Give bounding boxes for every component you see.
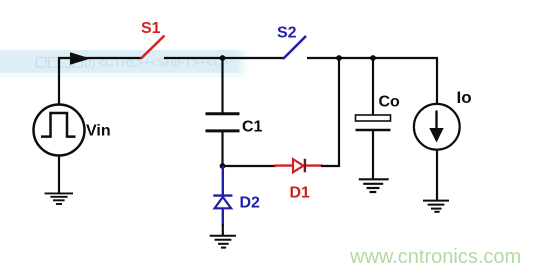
svg-text:D1: D1 <box>290 184 311 201</box>
svg-text:D2: D2 <box>240 194 261 211</box>
capacitor C1 <box>206 114 240 131</box>
current arrow on top rail <box>70 52 91 64</box>
wire: Co top lead <box>372 58 374 115</box>
node: D1 riser junction <box>336 55 342 61</box>
ground under D2 <box>210 224 236 248</box>
diode D2 <box>213 166 232 225</box>
wire: Vin bottom lead <box>58 156 60 194</box>
voltage source Vin <box>34 105 85 156</box>
watermark tooltip band <box>0 50 250 73</box>
ground under Io <box>423 201 449 212</box>
wire: top rail middle segment <box>164 57 284 59</box>
wire: bottom rail to D1 <box>223 165 277 167</box>
diode D1 <box>274 159 323 173</box>
ground under Co <box>359 179 389 192</box>
svg-text:S1: S1 <box>141 20 161 37</box>
wire: Co bottom lead <box>372 130 374 179</box>
node: bottom junction <box>220 163 226 169</box>
svg-text:Co: Co <box>379 94 401 111</box>
switch S2 <box>283 36 306 59</box>
switch S1 <box>141 36 165 59</box>
capacitor Co <box>356 115 391 130</box>
wire: riser to top rail <box>338 58 340 167</box>
node: C1 top junction <box>220 55 226 61</box>
watermark tooltip text <box>37 58 83 68</box>
wire: drop to Io <box>436 58 438 105</box>
wire: C1 top lead <box>221 58 223 113</box>
wire: Io bottom lead <box>436 150 438 200</box>
svg-text:S2: S2 <box>277 25 297 42</box>
ground under Vin <box>45 193 73 204</box>
svg-text:C1: C1 <box>242 118 263 135</box>
wire: Vin top lead up to top rail corner <box>59 58 142 105</box>
svg-text:Vin: Vin <box>86 123 111 140</box>
node: Co top junction <box>370 55 376 61</box>
wire: C1 bottom lead to bottom node <box>221 131 223 167</box>
svg-text:Io: Io <box>457 88 472 107</box>
current source Io <box>414 104 460 150</box>
svg-text:www.cntronics.com: www.cntronics.com <box>349 246 521 268</box>
wire: D1 to riser <box>321 165 340 167</box>
wire: top rail right segment <box>307 57 438 59</box>
